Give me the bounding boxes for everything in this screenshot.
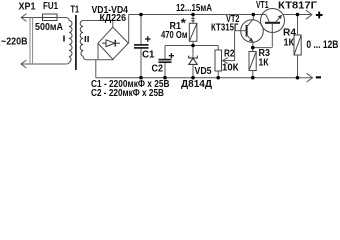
bridge inner diode symbol [102, 40, 120, 47]
junction node R4 top [296, 13, 300, 17]
transformer T1 secondary winding II [80, 21, 83, 57]
wire bridge left corner down to AC wire [97, 43, 99, 60]
svg-text:Т1: Т1 [71, 5, 80, 16]
svg-text:1К: 1К [259, 58, 270, 69]
capacitor C2 [164, 46, 166, 78]
label plus [316, 12, 323, 19]
svg-text:FU1: FU1 [43, 1, 58, 12]
resistor R1 [192, 15, 194, 24]
svg-text:10К: 10К [222, 63, 239, 74]
wire bottom rail (minus) [96, 77, 313, 79]
svg-text:R2: R2 [224, 49, 235, 60]
wire top rail (plus) [129, 14, 266, 16]
bridge rectifier VD1-VD4 diamond [98, 27, 128, 59]
svg-text:КТ315Г: КТ315Г [211, 23, 239, 34]
reference node wire (C2 - R1/VD5 - R2) [165, 45, 218, 47]
label minus [316, 76, 321, 78]
C2 plus sign [169, 53, 174, 58]
R2 wiper arrow to VT2 base [223, 31, 235, 64]
junction node reference (R1/VD5) [191, 44, 195, 48]
svg-text:500мА: 500мА [35, 22, 63, 33]
svg-text:КД226: КД226 [100, 13, 127, 24]
VT1 base bar [265, 22, 280, 24]
VT2 emitter with arrow [247, 35, 253, 48]
junction node R2 bottom [216, 76, 220, 80]
VT1 base lead down [271, 24, 273, 48]
wire primary bottom to plug [66, 62, 70, 64]
svg-text:I: I [63, 35, 66, 44]
R1 current ticks [191, 18, 194, 21]
wire bridge plus corner to top rail [127, 15, 129, 44]
svg-text:С2 - 220мкФ х 25В: С2 - 220мкФ х 25В [91, 88, 164, 99]
transistor VT1 [261, 9, 285, 33]
wire fuse to transformer primary [57, 18, 69, 21]
junction node C1 bottom [139, 76, 143, 80]
svg-text:~220В: ~220В [1, 37, 28, 48]
resistor R4 [294, 35, 301, 55]
wire secondary bottom to bridge bottom corner [83, 56, 113, 59]
junction node R4 bottom [296, 76, 300, 80]
potentiometer R2 [215, 50, 222, 71]
plug XP1 pin 2 (lower, arrow) [21, 60, 66, 68]
fuse FU1 [43, 14, 58, 21]
junction node R3 bottom [251, 76, 255, 80]
junction node VT2 collector [252, 13, 256, 17]
output minus arrow [307, 73, 313, 82]
svg-text:С2: С2 [152, 64, 164, 75]
junction node VT2 emitter / R3 [251, 46, 255, 50]
svg-text:Д814Д: Д814Д [181, 79, 212, 90]
C1 plus sign [145, 36, 151, 42]
transformer T1 core [75, 15, 77, 70]
svg-text:12...15мА: 12...15мА [176, 3, 212, 14]
junction node C2 bottom [163, 76, 167, 80]
wire VT2 emitter node to VT1 base [253, 47, 272, 49]
VT1 emitter with arrow [276, 15, 282, 22]
VT2 base bar [246, 25, 248, 37]
wire secondary top to bridge top corner [83, 21, 113, 28]
svg-text:КТ817Г: КТ817Г [278, 1, 317, 12]
transformer T1 primary winding I [69, 21, 72, 63]
svg-text:С1: С1 [142, 50, 155, 61]
svg-text:VT1: VT1 [256, 0, 269, 11]
VT1 collector [266, 15, 270, 23]
junction node R1 top [191, 13, 195, 17]
junction node C1 top [139, 13, 143, 17]
svg-text:VD5: VD5 [195, 66, 212, 77]
plug XP1 pin 1 (upper, arrow) [21, 14, 42, 22]
svg-text:*: * [181, 16, 187, 30]
output plus arrow [306, 10, 312, 19]
transistor VT2 [241, 20, 264, 43]
svg-text:470 Ом: 470 Ом [161, 30, 188, 41]
svg-text:II: II [84, 35, 90, 44]
VT2 base lead [235, 30, 247, 32]
wire output rail (plus) from VT1 emitter [283, 14, 312, 16]
svg-text:0 ... 12В: 0 ... 12В [306, 39, 338, 51]
zener diode VD5 [192, 46, 194, 59]
capacitor C1 [140, 15, 142, 78]
svg-text:1К: 1К [284, 38, 295, 49]
resistor R3 [249, 52, 256, 71]
wire down to minus rail [95, 60, 97, 78]
junction node VD5 bottom [191, 76, 195, 80]
plug XP1 body (double line) [30, 18, 33, 65]
svg-text:ХР1: ХР1 [19, 2, 36, 13]
VT2 collector [247, 15, 254, 27]
